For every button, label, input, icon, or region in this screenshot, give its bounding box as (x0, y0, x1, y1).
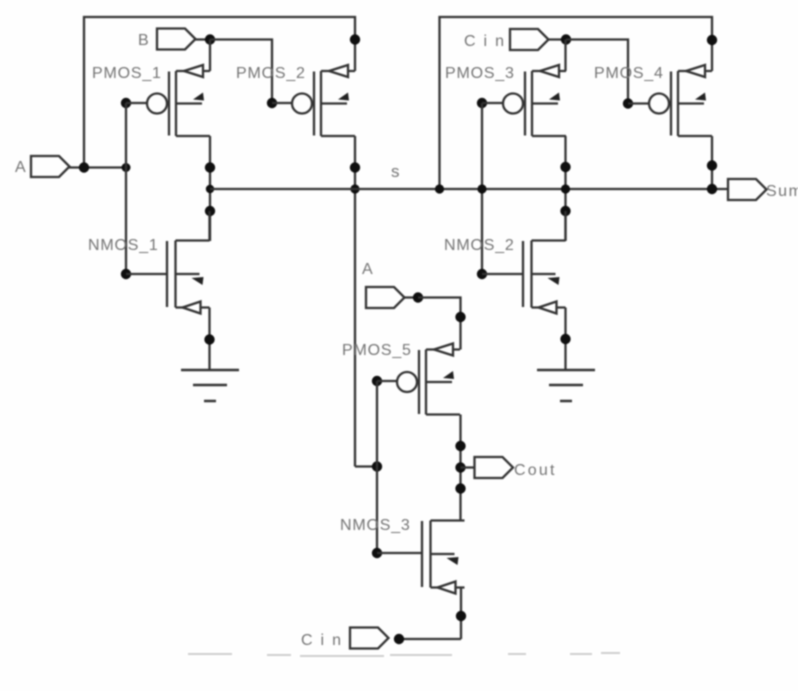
junction PMOS_5/NMOS_3 gate column (372, 461, 382, 471)
wire VDD frame left (A branch to PMOS_2 source) (84, 17, 355, 168)
svg-text:Cin: Cin (301, 632, 349, 649)
transistor NMOS_2 (NMOS) (523, 241, 566, 314)
junction NMOS_1 source node (204, 334, 214, 344)
wire NMOS_3 source down (460, 587, 462, 640)
wire B to PMOS_2 gate (210, 40, 272, 104)
wire PMOS_5 drain down to NMOS_3 drain (Cout node) (459, 415, 461, 522)
svg-text:Cout: Cout (514, 462, 557, 479)
svg-text:PMOS_5: PMOS_5 (342, 342, 412, 359)
wire A2 to PMOS_5 source (418, 298, 461, 350)
junction node Cin (561, 34, 571, 44)
faint artifact line (scan noise) (188, 653, 620, 656)
junction NMOS_2 drain node (560, 206, 570, 216)
port Sum (728, 179, 767, 200)
wire PMOS_2 gate lead (272, 102, 292, 104)
wire NMOS_2 gate lead (482, 273, 523, 275)
ground (under NMOS_2) (537, 370, 595, 401)
wire gate column A (PMOS_1 gate to NMOS_1 gate) (125, 103, 127, 274)
svg-text:B: B (138, 32, 149, 49)
transistor NMOS_1 (NMOS) (167, 241, 210, 314)
wire A to gate column (69, 166, 126, 168)
wire PMOS_4 gate lead (628, 102, 649, 104)
port A2 (366, 287, 405, 308)
wire gate column s (PMOS_3 gate to NMOS_2 gate) (481, 103, 483, 274)
junction PMOS_2 gate (267, 98, 277, 108)
port Cout (475, 457, 514, 478)
port Cin (510, 29, 549, 50)
wire NMOS_1 source to ground (208, 308, 210, 371)
wire NMOS_2 drain up (564, 211, 566, 241)
junction Cout tap (455, 462, 465, 472)
wire PMOS_3 source up to node Cin (564, 40, 566, 72)
junction rail x355 (350, 184, 359, 193)
junction NMOS_1 gate (121, 269, 131, 279)
junction rail left end (206, 185, 214, 193)
wire PMOS_3 gate lead (482, 102, 503, 104)
port A (31, 156, 70, 177)
wire Cin port to junction (549, 38, 567, 40)
wire PMOS_5 gate lead (377, 380, 397, 382)
svg-text:NMOS_3: NMOS_3 (340, 517, 411, 534)
transistor PMOS_2 (PMOS) (292, 65, 355, 136)
wire NMOS_3 source to Cin2 port (399, 638, 461, 640)
junction Sum node (707, 184, 717, 194)
junction PMOS_4 drain node (707, 160, 717, 170)
transistor PMOS_3 (PMOS) (503, 65, 566, 136)
wire gate branch corner (355, 465, 377, 467)
svg-text:Cin: Cin (464, 33, 512, 50)
wire PMOS_4 source up (711, 40, 713, 71)
transistor PMOS_5 (PMOS) (397, 344, 460, 415)
wire Cout tap to port (461, 466, 475, 468)
transistor PMOS_1 (PMOS) (147, 65, 210, 136)
wire PMOS_2 source up (354, 40, 356, 72)
junction PMOS_3 drain node (560, 162, 570, 172)
wire net s horizontal rail (210, 188, 728, 190)
wire B port to junction (196, 38, 211, 40)
svg-text:s: s (391, 162, 400, 181)
transistor PMOS_4 (PMOS) (649, 65, 712, 136)
junction PMOS_3 gate (477, 98, 487, 108)
junction NMOS_1 drain node (205, 206, 215, 216)
svg-text:NMOS_2: NMOS_2 (444, 237, 515, 254)
junction rail x565 (561, 184, 570, 193)
wire PMOS_4 drain down to Sum node (711, 136, 713, 189)
junction PMOS_5 source node (455, 312, 465, 322)
junction PMOS_4 gate (623, 98, 633, 108)
wire Cin to PMOS_4 gate (566, 40, 628, 104)
junction frame right / rail (435, 184, 444, 193)
junction A / frame (79, 162, 89, 172)
junction A / PMOS_1-NMOS_1 gate column (122, 163, 131, 172)
wire NMOS_3 gate lead (377, 552, 422, 554)
junction NMOS_3 gate (372, 548, 382, 558)
svg-text:PMOS_1: PMOS_1 (92, 65, 162, 82)
wire PMOS_1 gate lead (126, 102, 147, 104)
port Cin2 (350, 628, 389, 649)
svg-text:PMOS_3: PMOS_3 (445, 65, 515, 82)
transistor NMOS_3 (NMOS) (422, 521, 465, 594)
wire NMOS_2 source to ground (564, 308, 566, 371)
junction PMOS_5 gate (372, 376, 382, 386)
wire NMOS_1 drain up (208, 211, 210, 241)
wire PMOS_2 drain long vertical to NMOS_3 gate branch (354, 136, 356, 467)
ground (under NMOS_1) (181, 370, 239, 401)
junction NMOS_2 source node (560, 334, 570, 344)
svg-text:PMOS_4: PMOS_4 (594, 65, 664, 82)
svg-text:A: A (15, 159, 26, 176)
wire A2 port to junction (405, 296, 419, 298)
junction node A2 (413, 292, 423, 302)
junction NMOS_2 gate (477, 269, 487, 279)
junction Cout node lower (455, 483, 465, 493)
junction PMOS_4 source / frame (707, 35, 717, 45)
junction node Cin bottom (394, 634, 404, 644)
junction PMOS_2 source / VDD frame (350, 34, 360, 44)
wire PMOS_1 drain down to NMOS_1 drain (209, 136, 211, 241)
wire gate column down to NMOS_3 gate (376, 467, 378, 554)
wire frame right (to PMOS_4 source) (440, 17, 713, 189)
junction PMOS_1 drain node (205, 162, 215, 172)
junction rail x482 (477, 184, 486, 193)
svg-text:NMOS_1: NMOS_1 (88, 237, 159, 254)
wire gate column up to PMOS_5 gate (376, 381, 378, 467)
svg-text:PMOS_2: PMOS_2 (236, 65, 306, 82)
wire NMOS_1 gate lead (126, 273, 167, 275)
port B (157, 29, 196, 50)
wire PMOS_1 source up to node B (209, 40, 211, 72)
junction NMOS_3 source node (456, 611, 466, 621)
svg-text:A: A (362, 261, 373, 278)
junction PMOS_1 gate (121, 98, 131, 108)
junction PMOS_2 drain node (350, 162, 360, 172)
wire PMOS_3 drain down to NMOS_2 drain (564, 136, 566, 241)
junction node B (205, 34, 215, 44)
junction Cout node upper (455, 441, 465, 451)
svg-text:Sum: Sum (766, 183, 798, 200)
